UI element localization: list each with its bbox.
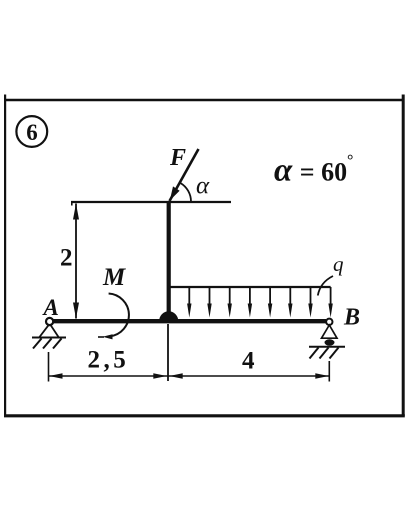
frame bottom border (4, 414, 405, 417)
support A pin circle (46, 318, 53, 325)
support B roller blob (325, 339, 335, 345)
extension line at B (328, 361, 330, 382)
moment M arc (109, 294, 129, 337)
beam (53, 319, 326, 323)
dimension 2 vertical line (75, 204, 77, 319)
support A ground line (32, 337, 66, 339)
svg-text:2: 2 (60, 245, 73, 272)
horizontal reference line at top of post (71, 201, 231, 203)
support B ground line (309, 346, 345, 348)
q leader curve (318, 276, 333, 296)
load dropline 7 (310, 287, 312, 306)
dimension 2 top arrowhead (73, 204, 79, 220)
frame top border (4, 99, 404, 102)
dim arrow at B pointing right (315, 373, 329, 379)
moment M arrow tail (98, 336, 104, 338)
dim arrow left of post pointing right (153, 373, 167, 379)
svg-text:2,5: 2,5 (88, 347, 130, 374)
svg-text:M: M (102, 264, 126, 291)
support A hatch 2 (43, 339, 52, 349)
load dropline 2 (209, 287, 211, 306)
load dropline 1 (188, 287, 190, 306)
svg-text:F: F (169, 145, 186, 171)
extension line at A (48, 352, 50, 382)
filled semicircle blob at post base (159, 311, 178, 321)
support A hatch 3 (53, 339, 62, 349)
distributed load top line (169, 286, 331, 288)
support B triangle (322, 325, 338, 338)
load dropline 5 (269, 287, 271, 306)
support B roller circle (326, 319, 332, 325)
support B hatch 3 (330, 348, 339, 359)
load dropline 4 (249, 287, 251, 306)
force F line (170, 149, 199, 201)
support B hatch 1 (310, 348, 319, 359)
svg-text:6: 6 (26, 120, 38, 145)
dimension 2 bottom arrowhead (73, 303, 79, 319)
support B hatch 2 (320, 348, 329, 359)
support A triangle (40, 325, 59, 337)
svg-text:q: q (333, 252, 344, 276)
load dropline 8 right edge (330, 287, 332, 306)
dim arrow at A pointing left (49, 373, 63, 379)
load dropline 6 (289, 287, 291, 306)
svg-text:α = 60: α = 60 (274, 153, 347, 189)
alpha angle arc (181, 183, 191, 201)
problem number circle 6 (16, 116, 47, 147)
svg-text:B: B (343, 305, 360, 331)
support A hatch 1 (33, 339, 42, 349)
frame right border (402, 95, 405, 417)
svg-text:°: ° (347, 153, 353, 170)
dim arrow right of post pointing left (169, 373, 183, 379)
force F arrowhead (170, 186, 180, 200)
vertical post (167, 201, 171, 320)
svg-text:A: A (42, 295, 59, 320)
frame left border (4, 95, 6, 416)
svg-text:4: 4 (242, 348, 255, 375)
svg-text:α: α (196, 173, 210, 200)
extension line at post (167, 324, 169, 381)
moment M arrowhead (103, 334, 113, 339)
dimension line bottom (49, 375, 330, 377)
load dropline 3 (229, 287, 231, 306)
